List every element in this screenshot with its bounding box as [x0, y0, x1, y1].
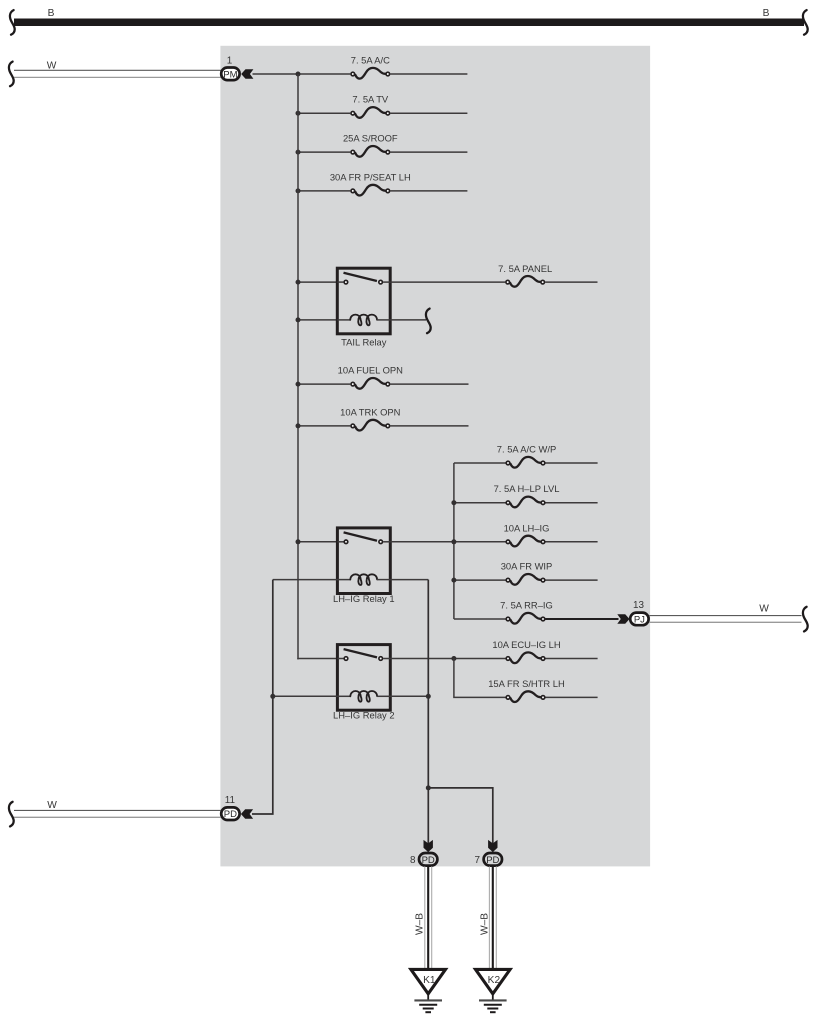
node ground branch split [426, 785, 431, 790]
wire row fuse FUEL OPN [298, 383, 469, 385]
node at bus row1 [296, 72, 301, 77]
wire relay2 coil left [273, 695, 338, 697]
node LH-IG branch [451, 539, 456, 544]
svg-text:11: 11 [225, 795, 236, 806]
svg-text:7. 5A A/C: 7. 5A A/C [351, 55, 390, 66]
wire row fuse TV [298, 112, 467, 114]
node relay1 switch feed [296, 539, 301, 544]
svg-text:K2: K2 [488, 975, 501, 986]
ground K1 [411, 969, 446, 1012]
wire bus to TAIL relay switch [298, 281, 338, 283]
fuse feed branch vertical [453, 463, 455, 619]
svg-text:8: 8 [410, 855, 416, 866]
svg-text:10A TRK OPN: 10A TRK OPN [340, 406, 400, 417]
node H-LP branch [451, 500, 456, 505]
svg-text:LH–IG Relay 2: LH–IG Relay 2 [333, 710, 395, 721]
svg-text:W: W [47, 61, 57, 72]
wire row fuse FR S/HTR LH right part [546, 696, 598, 698]
wire row fuse FR WIP [454, 579, 598, 581]
wire relay1 coil left [273, 579, 338, 581]
fuse 10A TRK OPN [340, 406, 400, 430]
pin number 13 [633, 600, 644, 611]
connector PD pin 8 [419, 853, 437, 866]
wire row fuse TRK OPN [298, 425, 469, 427]
fuse 10A LH-IG [504, 522, 550, 546]
connector PM pin 1 [221, 68, 239, 81]
label W lower [47, 800, 57, 811]
svg-text:B: B [48, 8, 55, 19]
wire W to PM (double line) [14, 70, 221, 77]
fuse 10A ECU-IG LH [492, 639, 560, 663]
break symbol left of bus bar [10, 10, 15, 35]
node at bus row2 [296, 111, 301, 116]
right coil bus vertical [427, 580, 429, 844]
connector PD pin 7 [484, 853, 502, 866]
svg-text:PD: PD [486, 855, 499, 866]
svg-text:1: 1 [227, 56, 233, 67]
left coil bus vertical [252, 580, 273, 814]
wire TAIL switch to PANEL fuse [390, 281, 597, 283]
wire row fuse A/C [253, 73, 468, 75]
svg-text:PM: PM [223, 69, 237, 80]
svg-text:PJ: PJ [634, 614, 645, 625]
svg-text:PD: PD [224, 809, 237, 820]
svg-text:30A FR P/SEAT LH: 30A FR P/SEAT LH [330, 171, 411, 182]
relay LH-IG Relay 2 [333, 645, 395, 721]
node ECU-IG branch [451, 656, 456, 661]
svg-text:7. 5A PANEL: 7. 5A PANEL [498, 263, 552, 274]
wire W-B to K1 (triple line) [425, 866, 432, 969]
fuse 7.5A A/C W/P [497, 444, 556, 468]
wire relay2 coil right [390, 695, 428, 697]
pin number 8 [410, 855, 416, 866]
label W-B K2 [479, 913, 490, 935]
wire row fuse S/ROOF [298, 151, 467, 153]
svg-text:30A FR WIP: 30A FR WIP [501, 561, 553, 572]
bus bar B (thick) [14, 19, 804, 27]
label W [47, 61, 57, 72]
pin number 11 [225, 795, 236, 806]
fuse 30A FR WIP [501, 561, 553, 585]
wire bus to relay1 switch [298, 541, 338, 543]
node FR WIP branch [451, 578, 456, 583]
branch down to S/HTR row [454, 659, 506, 698]
svg-text:13: 13 [633, 600, 644, 611]
break symbol left of W wire [9, 62, 14, 87]
wire row fuse H-LP LVL [454, 502, 598, 504]
node TAIL switch [296, 280, 301, 285]
wire branch to PD 7 [428, 788, 493, 844]
fuse 7.5A H-LP LVL [494, 483, 560, 507]
wire row fuse RR-IG [454, 618, 619, 620]
svg-text:W: W [759, 604, 769, 615]
svg-text:PD: PD [422, 855, 435, 866]
svg-text:K1: K1 [423, 975, 436, 986]
fuse 7.5A RR-IG [500, 600, 553, 624]
main vertical bus [297, 74, 299, 659]
node TAIL coil [296, 317, 301, 322]
relay TAIL Relay [337, 268, 390, 347]
wire TAIL coil out [390, 319, 426, 321]
break symbol right of bus bar [803, 10, 808, 35]
node relay2 coil right [426, 694, 431, 699]
svg-text:10A FUEL OPN: 10A FUEL OPN [338, 365, 403, 376]
label W right [759, 604, 769, 615]
wire row fuse FR P/SEAT LH [298, 190, 467, 192]
arrow into PD 7 [488, 840, 497, 852]
fuse 7.5A PANEL [498, 263, 552, 287]
svg-text:25A S/ROOF: 25A S/ROOF [343, 133, 398, 144]
node at bus row4 [296, 188, 301, 193]
junction block panel (gray background) [220, 46, 650, 867]
wire row fuse ECU-IG LH [454, 658, 598, 660]
svg-text:W–B: W–B [415, 913, 426, 935]
wire bus corner to relay2 switch [298, 657, 338, 660]
relay LH-IG Relay 1 [333, 528, 395, 604]
break symbol left of PD11 wire [9, 802, 14, 827]
wire row fuse A/C W/P [454, 462, 598, 464]
label W-B K1 [415, 913, 426, 935]
svg-text:10A ECU–IG LH: 10A ECU–IG LH [492, 639, 560, 650]
wire W from PJ (double line) [649, 616, 801, 623]
label B right [763, 8, 770, 19]
wire relay1 switch to fuse branch [390, 541, 455, 543]
node TRK row [296, 423, 301, 428]
break symbol right of PJ wire [803, 607, 808, 632]
svg-text:7. 5A H–LP LVL: 7. 5A H–LP LVL [494, 483, 560, 494]
svg-text:LH–IG Relay 1: LH–IG Relay 1 [333, 593, 395, 604]
label B left [48, 8, 55, 19]
svg-text:TAIL Relay: TAIL Relay [341, 336, 387, 347]
svg-text:7. 5A A/C W/P: 7. 5A A/C W/P [497, 444, 556, 455]
wire row fuse LH-IG [454, 541, 598, 543]
svg-text:10A LH–IG: 10A LH–IG [504, 522, 550, 533]
arrow into PD 11 [241, 809, 253, 818]
arrow into PM [241, 69, 253, 78]
fuse 10A FUEL OPN [338, 365, 403, 389]
svg-text:15A FR S/HTR LH: 15A FR S/HTR LH [488, 678, 565, 689]
node relay2 coil left [270, 694, 275, 699]
svg-text:7. 5A RR–IG: 7. 5A RR–IG [500, 600, 553, 611]
wire W to PD 11 (double line) [14, 810, 221, 817]
fuse 15A FR S/HTR LH [488, 678, 565, 702]
wire relay1 coil right [390, 579, 428, 581]
node at bus row3 [296, 150, 301, 155]
svg-text:7. 5A TV: 7. 5A TV [352, 94, 389, 105]
arrow into PJ [617, 614, 629, 623]
fuse 7.5A A/C [351, 55, 390, 79]
pin number 1 [227, 56, 233, 67]
connector PD pin 11 [221, 807, 239, 820]
svg-text:7: 7 [475, 855, 481, 866]
fuse 25A S/ROOF [343, 133, 398, 157]
fuse 30A FR P/SEAT LH [330, 171, 411, 195]
ground K2 [476, 969, 511, 1012]
svg-text:W–B: W–B [479, 913, 490, 935]
break symbol TAIL coil [426, 309, 431, 334]
wire relay2 switch to ECU-IG row [390, 658, 455, 660]
svg-text:B: B [763, 8, 770, 19]
svg-text:W: W [47, 800, 57, 811]
arrow into PD 8 [424, 840, 433, 852]
wire W-B to K2 (triple line) [489, 866, 496, 969]
node FUEL row [296, 382, 301, 387]
wire bus to TAIL relay coil [298, 319, 338, 321]
connector PJ pin 13 [630, 613, 648, 626]
pin number 7 [475, 855, 481, 866]
fuse 7.5A TV [351, 94, 390, 118]
